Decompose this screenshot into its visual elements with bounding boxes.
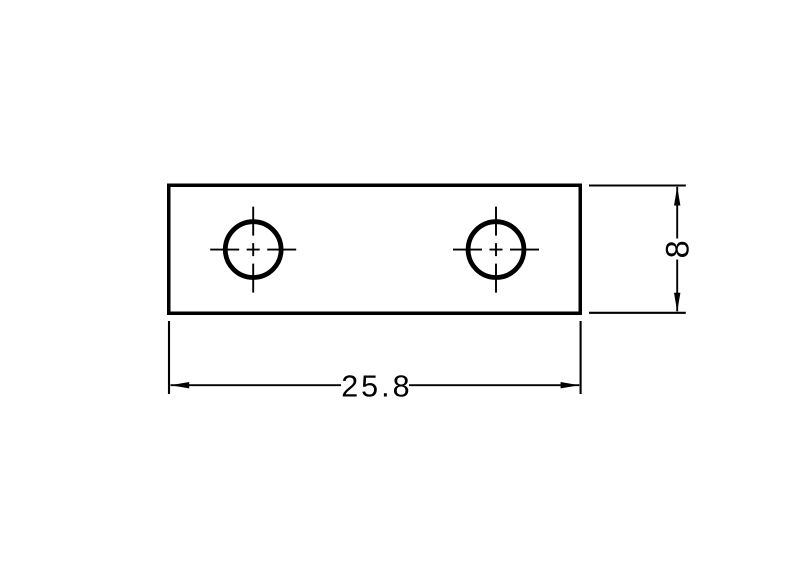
dimension line 8 top segment (676, 187, 678, 239)
centerline left-hole vertical (252, 207, 254, 293)
extension line bottom-left (168, 321, 170, 394)
svg-text:25.8: 25.8 (341, 369, 412, 403)
centerline right-hole vertical (495, 207, 497, 293)
extension line right-top (589, 184, 686, 186)
plate outline (169, 185, 581, 313)
dimension line 25.8 left segment (171, 384, 342, 386)
svg-text:8: 8 (659, 240, 695, 258)
hole circle right (468, 222, 524, 278)
arrowhead right of 25.8 (561, 382, 580, 388)
dimension line 25.8 right segment (409, 384, 579, 386)
dimension line 8 bottom segment (676, 260, 678, 312)
centerline left-hole horizontal (210, 249, 296, 251)
extension line right-bottom (589, 312, 686, 314)
arrowhead top of 8 (674, 187, 680, 206)
arrowhead left of 25.8 (170, 382, 189, 388)
extension line bottom-right (580, 321, 582, 394)
centerline right-hole horizontal (453, 249, 539, 251)
arrowhead bottom of 8 (674, 293, 680, 312)
hole circle left (225, 222, 281, 278)
